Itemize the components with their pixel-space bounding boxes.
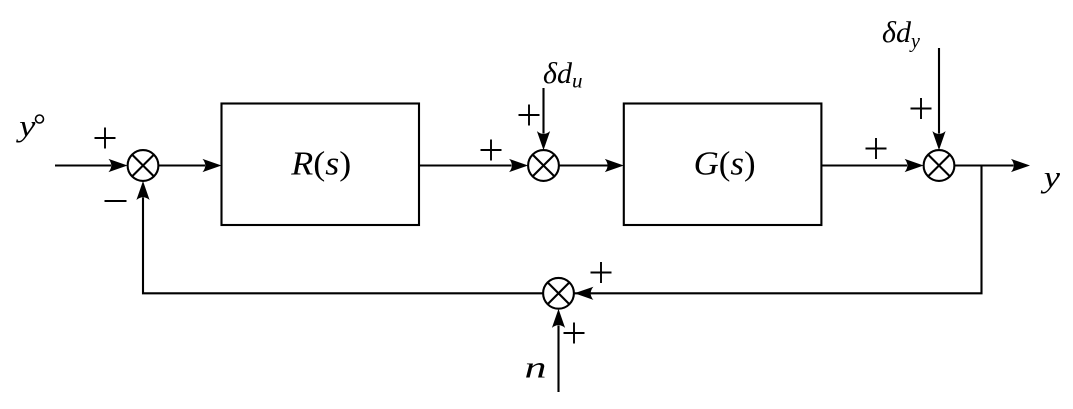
plus sign above feedback arrow right of S4 [591,262,612,283]
arrowhead into S2 [509,159,528,172]
arrowhead of n rise [552,309,565,328]
svg-text:R(s): R(s) [290,146,351,183]
plus sign at input of S1 [95,128,116,149]
wire n rise into S4 [557,326,559,393]
wire S1 to R(s) [158,164,205,166]
plus sign before S3 [866,138,887,159]
wire input y-deg to summing junction S1 [55,164,111,166]
arrowhead into R(s) [203,159,222,172]
arrowhead output y [1011,159,1030,172]
arrowhead into S3 [905,159,924,172]
plus sign beside delta-d-y drop [911,98,932,119]
block R(s) [222,104,420,226]
arrowhead into S1 [109,159,128,172]
wire feedback branch down from node at x=981.5 [575,166,982,294]
wire delta-d-u drop into S2 [542,88,544,134]
svg-text:G(s): G(s) [694,146,756,183]
plus sign beside delta-d-u drop [519,105,540,126]
plus sign beside n rise [564,323,585,344]
svg-text:δdu: δdu [543,57,582,93]
svg-text:y: y [1041,160,1061,194]
arrowhead into G(s) [605,159,624,172]
wire feedback left from S4 to corner below S1 [143,198,543,294]
summing junction S4 [543,278,574,309]
wire delta-d-y drop into S3 [938,48,940,134]
svg-text:y: y [16,109,36,143]
arrowhead of delta-d-u drop [537,131,550,150]
wire S2 to G(s) [559,164,608,166]
arrowhead of delta-d-y drop [932,131,945,150]
block G(s) [624,104,822,226]
summing junction S3 [924,150,955,181]
minus sign at feedback input of S1 [105,200,127,202]
summing junction S1 [128,150,159,181]
arrowhead feedback into S4 right side [574,287,593,300]
plus sign before S2 [481,140,502,161]
svg-text:n: n [525,351,547,385]
svg-text:δdy: δdy [882,16,920,53]
summing junction S2 [528,150,559,181]
wire R(s) to summing junction S2 [419,164,512,166]
wire S3 to output y [954,164,1013,166]
wire G(s) to summing junction S3 [821,164,907,166]
arrowhead feedback up into S1 bottom [136,181,149,200]
